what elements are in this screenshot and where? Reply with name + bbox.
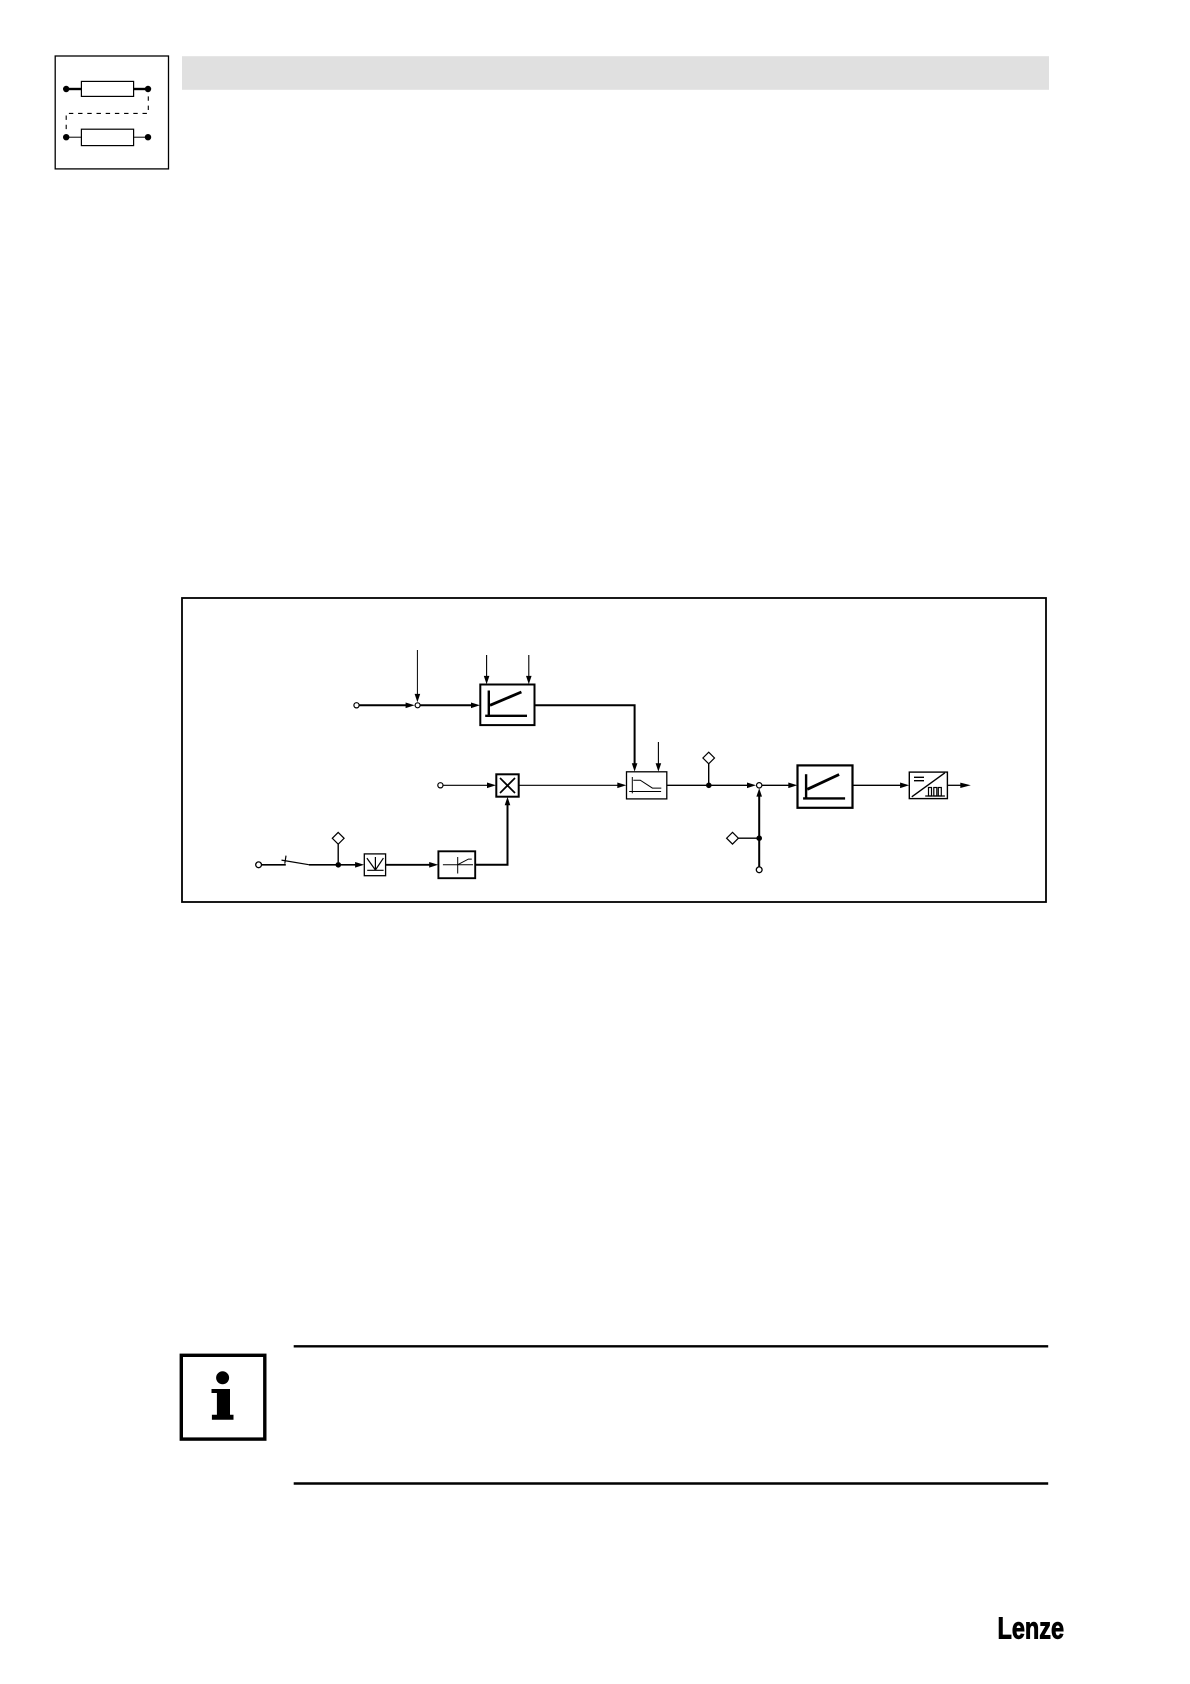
wire multiplier to PT1 element [519,783,627,789]
resistor R1 (mains choke top) [81,81,133,96]
Lenze logo [998,1611,1065,1646]
wire node B to ramp limiter [762,783,797,789]
resistor R2 (mains choke bottom) [81,129,133,145]
wire switch to limiter element [309,862,364,868]
node input terminal circle [354,703,359,708]
wire PT1 output to node B [667,783,756,789]
code diamond C0050 [703,752,715,764]
wire U1 output to PT1 element [535,705,638,771]
wire ramp limiter to PWM converter [853,783,910,789]
switch S1 [282,856,309,865]
node R2 right terminal dot [145,134,151,140]
ramp function generator U1 [480,685,534,726]
wire parameter arrow into node A [415,650,421,702]
code diamond C0037 [332,832,344,844]
ramp limiter U3 [798,765,853,807]
function diagram frame [182,598,1046,902]
logo frame [55,56,168,169]
wire code diamond link C0037 [337,844,339,863]
svg-text:Lenze: Lenze [998,1611,1065,1646]
node B circle [757,783,762,788]
node junction dot after PT1 [706,783,712,789]
multiplier M1 [496,774,518,796]
wire R2 right lead [134,136,148,138]
wire PWM output arrow [947,783,970,788]
wire R1 right lead [134,88,148,90]
wire feedback branch up into node B [756,788,762,867]
node R1 left terminal dot [63,86,69,92]
wire node A to ramp generator [420,703,480,709]
PT1 element U2 [627,772,667,799]
wire code diamond link C0049 [738,837,760,839]
rule top of note [294,1345,1048,1347]
limiter element U5 [364,854,385,876]
wire R1 left lead [66,88,81,90]
node A circle [415,703,420,708]
node junction dot JOG [336,862,342,868]
characteristic element U6 [438,851,475,878]
wire input terminal to node A [357,703,415,709]
wire parameter arrow 2 into U1 top [526,655,532,684]
info icon frame [181,1355,264,1439]
wire JOG terminal to switch [262,864,286,866]
node setpoint terminal circle [438,783,443,788]
node junction dot on branch [756,835,762,841]
wire code diamond link C0050 [708,763,710,783]
wire setpoint terminal to multiplier [443,783,496,789]
node branch terminal circle [756,867,762,873]
wire characteristic to multiplier bottom [475,797,510,865]
PWM converter U4 [909,772,947,799]
code diamond C0049 [727,832,739,844]
node R2 left terminal dot [63,134,69,140]
wire parameter arrow into PT1 top [656,742,662,772]
wire parameter arrow 1 into U1 top [484,655,490,684]
rule bottom of note [294,1482,1048,1484]
header bar [182,56,1049,90]
node JOG terminal circle [256,862,262,868]
node R1 right terminal dot [145,86,151,92]
wire R2 left lead [66,136,81,138]
info icon letter i [212,1371,234,1419]
wire limiter to characteristic element [386,862,439,868]
wire dashed link R1 to R2 [66,96,148,133]
